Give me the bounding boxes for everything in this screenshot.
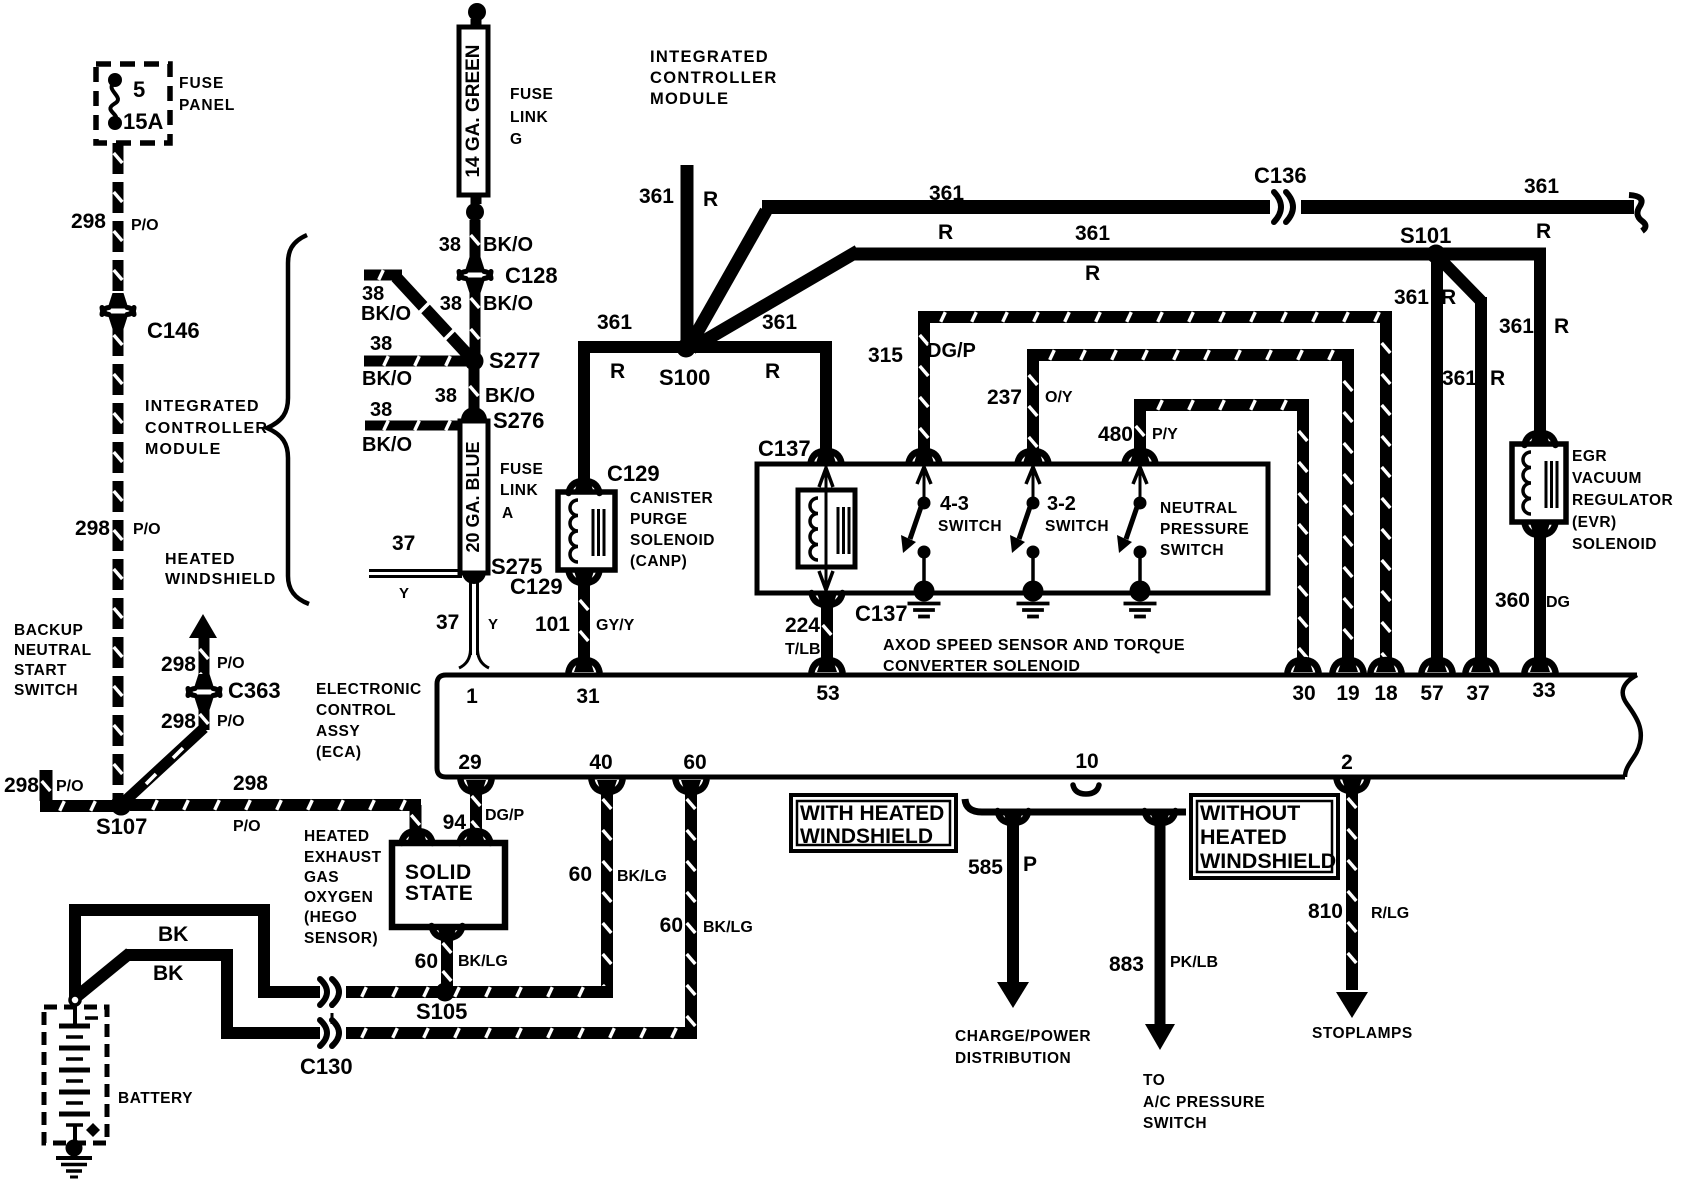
connector bell 585 branch <box>998 811 1029 823</box>
connector C136 <box>1274 192 1281 222</box>
svg-text:R/LG: R/LG <box>1371 905 1409 922</box>
svg-text:WINDSHIELD: WINDSHIELD <box>1200 849 1336 873</box>
node S100 <box>677 339 696 358</box>
svg-text:PANEL: PANEL <box>179 97 235 114</box>
svg-text:SOLENOID: SOLENOID <box>1572 536 1657 553</box>
electronic control assy ECA box <box>437 675 1637 777</box>
svg-text:38: 38 <box>439 234 461 256</box>
svg-text:298: 298 <box>161 653 196 676</box>
canister purge solenoid CANP box <box>558 492 615 570</box>
svg-text:(ECA): (ECA) <box>316 744 362 761</box>
svg-text:SWITCH: SWITCH <box>14 682 78 699</box>
switch 4-3 symbol <box>923 466 926 497</box>
svg-text:361: 361 <box>1524 175 1559 198</box>
svg-text:BK/O: BK/O <box>362 368 412 390</box>
svg-text:C130: C130 <box>300 1054 353 1079</box>
svg-text:BATTERY: BATTERY <box>118 1090 193 1107</box>
svg-text:C136: C136 <box>1254 163 1307 188</box>
svg-text:BK/LG: BK/LG <box>703 919 753 936</box>
svg-text:SENSOR): SENSOR) <box>304 930 378 947</box>
svg-text:P/O: P/O <box>131 217 159 234</box>
svg-text:361: 361 <box>639 185 674 208</box>
svg-text:19: 19 <box>1336 682 1359 705</box>
node S107 <box>111 795 132 816</box>
svg-text:R: R <box>938 221 953 244</box>
svg-text:BK/LG: BK/LG <box>458 953 508 970</box>
svg-text:361: 361 <box>762 311 797 334</box>
svg-text:START: START <box>14 662 67 679</box>
svg-text:53: 53 <box>816 682 839 705</box>
connector bell 4-3 entry <box>909 451 940 463</box>
svg-text:C137: C137 <box>758 436 811 461</box>
svg-text:WINDSHIELD: WINDSHIELD <box>165 571 276 588</box>
ground below battery <box>56 1156 92 1160</box>
wire 315 DG/P 4-3 switch to ECA pin 18 <box>918 311 930 459</box>
svg-text:(CANP): (CANP) <box>630 553 687 570</box>
wire 38 BK/O stub and diagonal into S277 <box>364 270 402 281</box>
svg-text:INTEGRATED: INTEGRATED <box>650 48 769 66</box>
wire 38 BK/O to C128 <box>470 220 481 265</box>
svg-text:S105: S105 <box>416 999 467 1024</box>
wire 361 R second rail <box>853 248 1546 261</box>
wire 298 P/O S107 to HEGO solid state <box>130 799 421 811</box>
connector bell ECA pin 30 <box>1288 660 1319 672</box>
connector bell ECA pin 18 <box>1371 660 1402 672</box>
switch neutral pressure symbol <box>1139 466 1142 497</box>
wire 361 R top rail <box>762 200 1270 214</box>
svg-text:37: 37 <box>1466 682 1489 705</box>
node S277 <box>465 352 484 371</box>
svg-text:SWITCH: SWITCH <box>1160 542 1224 559</box>
svg-text:298: 298 <box>71 210 106 233</box>
svg-text:224: 224 <box>785 614 820 637</box>
wire 361 R diagonal S100 to top rail <box>690 211 766 345</box>
svg-text:40: 40 <box>589 751 612 774</box>
svg-text:CONVERTER SOLENOID: CONVERTER SOLENOID <box>883 658 1080 675</box>
svg-text:1: 1 <box>466 685 478 708</box>
svg-text:C137: C137 <box>855 601 908 626</box>
svg-text:5: 5 <box>133 77 145 102</box>
svg-text:STOPLAMPS: STOPLAMPS <box>1312 1025 1413 1042</box>
svg-text:TO: TO <box>1143 1072 1165 1089</box>
connector bell 883 branch <box>1145 811 1176 823</box>
svg-text:PK/LB: PK/LB <box>1170 954 1218 971</box>
svg-text:NEUTRAL: NEUTRAL <box>1160 500 1238 517</box>
svg-text:31: 31 <box>576 685 600 708</box>
svg-text:S107: S107 <box>96 814 147 839</box>
svg-text:SOLID: SOLID <box>405 861 472 884</box>
svg-text:MODULE: MODULE <box>650 90 729 108</box>
svg-text:361: 361 <box>1499 315 1534 338</box>
wire stub into fuse link G box <box>471 19 482 29</box>
svg-text:298: 298 <box>75 517 110 540</box>
svg-text:883: 883 <box>1109 953 1144 976</box>
svg-text:CONTROLLER: CONTROLLER <box>145 420 268 437</box>
svg-text:R: R <box>703 188 718 211</box>
svg-text:T/LB: T/LB <box>785 641 821 658</box>
svg-text:LINK: LINK <box>500 482 538 499</box>
wire BK lower battery to C130 <box>75 953 130 998</box>
wire 60 BK/LG pin 40 to S105 rail <box>601 783 613 998</box>
node S105 <box>436 983 455 1002</box>
ground at 4-3 switch <box>914 581 935 602</box>
svg-text:3-2: 3-2 <box>1047 493 1076 515</box>
svg-text:BK/O: BK/O <box>361 303 411 325</box>
svg-text:SWITCH: SWITCH <box>938 518 1002 535</box>
wire 101 GY/Y to ECA pin 31 <box>578 583 590 668</box>
svg-text:GAS: GAS <box>304 869 339 886</box>
svg-text:ASSY: ASSY <box>316 723 360 740</box>
svg-text:AXOD SPEED SENSOR AND TORQUE: AXOD SPEED SENSOR AND TORQUE <box>883 637 1185 654</box>
EGR vacuum regulator EVR solenoid box <box>1512 444 1566 522</box>
svg-text:HEATED: HEATED <box>304 828 370 845</box>
svg-text:BK: BK <box>158 923 188 946</box>
svg-text:38: 38 <box>370 399 392 421</box>
svg-text:BK/O: BK/O <box>362 434 412 456</box>
connector bell ECA pin 29 <box>461 780 492 792</box>
arrow to charge/power distribution <box>997 982 1029 1008</box>
svg-text:480: 480 <box>1098 423 1133 446</box>
node below fuse link G <box>466 203 484 221</box>
wire 361 R vertical above S100 <box>681 165 694 344</box>
svg-text:C129: C129 <box>510 574 563 599</box>
svg-text:LINK: LINK <box>510 109 548 126</box>
svg-text:37: 37 <box>392 532 415 555</box>
without heated windshield box <box>1191 795 1338 878</box>
svg-text:R: R <box>1554 315 1569 338</box>
node S101 <box>1427 245 1446 264</box>
wire jumper bar below pin 10 <box>965 799 1186 812</box>
svg-text:EXHAUST: EXHAUST <box>304 849 382 866</box>
svg-text:S277: S277 <box>489 348 540 373</box>
arrow to A/C pressure switch <box>1145 1024 1175 1050</box>
svg-text:C128: C128 <box>505 263 558 288</box>
svg-text:298: 298 <box>4 774 39 797</box>
connector bell NPS entry <box>1125 451 1156 463</box>
svg-text:C363: C363 <box>228 678 281 703</box>
svg-text:R: R <box>1441 286 1456 309</box>
wire 883 PK/LB to A/C pressure switch <box>1155 815 1166 1024</box>
svg-text:361: 361 <box>929 182 964 205</box>
svg-text:15A: 15A <box>123 109 163 134</box>
fuse link A box 20 GA. BLUE <box>460 421 488 573</box>
svg-text:R: R <box>610 360 625 383</box>
svg-text:94: 94 <box>443 811 467 834</box>
connector bell ECA pin 31 <box>569 660 600 672</box>
connector bell ECA pin 19 <box>1333 660 1364 672</box>
svg-text:BACKUP: BACKUP <box>14 622 83 639</box>
svg-text:PRESSURE: PRESSURE <box>1160 521 1249 538</box>
battery plus diamond <box>86 1123 100 1137</box>
wire 361 R S101 to ECA pin 57 <box>1431 260 1443 668</box>
svg-text:OXYGEN: OXYGEN <box>304 889 373 906</box>
wire 298 P/O to heated windshield (arrow up) <box>189 614 217 638</box>
svg-text:361: 361 <box>1075 222 1110 245</box>
connector bell ECA pin 60 <box>676 780 707 792</box>
ground at neutral pressure switch <box>1130 581 1151 602</box>
svg-text:SWITCH: SWITCH <box>1143 1115 1207 1132</box>
node S276 (dome) <box>461 407 487 421</box>
svg-text:BK/O: BK/O <box>485 385 535 407</box>
svg-text:FUSE: FUSE <box>179 75 224 92</box>
svg-text:REGULATOR: REGULATOR <box>1572 492 1673 509</box>
svg-text:(HEGO: (HEGO <box>304 909 357 926</box>
wire 298 P/O C363 to S107 <box>199 708 210 730</box>
svg-text:WITH HEATED: WITH HEATED <box>800 802 944 825</box>
svg-text:585: 585 <box>968 856 1003 879</box>
battery positive post <box>70 995 80 1005</box>
wire stub below box <box>471 195 482 204</box>
wire 298 P/O fuse panel to C146 (dashed) <box>113 143 124 297</box>
svg-text:298: 298 <box>161 710 196 733</box>
connector bell ECA pin 2 <box>1337 779 1368 791</box>
svg-text:STATE: STATE <box>405 882 473 905</box>
svg-text:60: 60 <box>569 863 592 886</box>
svg-text:101: 101 <box>535 613 570 636</box>
battery dashed box <box>44 1007 107 1143</box>
wire 60 BK/LG HEGO to S105 <box>441 930 453 986</box>
wire 360 DG EVR to ECA pin 33 <box>1534 535 1546 668</box>
connector C130 upper <box>320 979 327 1005</box>
wire 38 BK/O C128 to S277 <box>470 285 481 356</box>
wire 810 R/LG to stoplamps <box>1346 782 1358 990</box>
svg-text:20 GA. BLUE: 20 GA. BLUE <box>463 441 483 552</box>
fuse F5 15A symbol <box>108 73 122 87</box>
node terminal above fuse link G <box>468 3 486 21</box>
svg-text:P/O: P/O <box>217 713 245 730</box>
wire 298 P/O C146 to S107 (dashed) <box>113 325 124 799</box>
svg-text:361: 361 <box>597 311 632 334</box>
connector bell ECA pin 53 <box>812 660 843 672</box>
wire 38 BK/O horizontal into S277 <box>364 356 466 367</box>
svg-text:BK/O: BK/O <box>483 234 533 256</box>
svg-text:S101: S101 <box>1400 223 1451 248</box>
svg-text:18: 18 <box>1374 682 1398 705</box>
svg-text:SOLENOID: SOLENOID <box>630 532 715 549</box>
svg-text:SWITCH: SWITCH <box>1045 518 1109 535</box>
wire 585 P to charge/power distribution <box>1007 815 1019 987</box>
arrow to stoplamps <box>1336 992 1368 1018</box>
connector bell C129 top <box>569 481 600 493</box>
wire 224 T/LB to ECA pin 53 <box>821 605 833 668</box>
connector C130 lower <box>320 1020 327 1046</box>
svg-text:R: R <box>1490 367 1505 390</box>
svg-text:29: 29 <box>458 751 481 774</box>
wire 361 R S100 left to C129 <box>578 341 688 353</box>
svg-text:DG: DG <box>1546 594 1570 611</box>
wire 38 BK/O S277 to S276 <box>469 368 480 414</box>
wire 38 BK/O horizontal into S276 box <box>365 421 458 431</box>
node S275 (dome) <box>462 571 486 584</box>
svg-text:O/Y: O/Y <box>1045 389 1073 406</box>
ground at 3-2 switch <box>1023 581 1044 602</box>
svg-text:A: A <box>502 505 513 522</box>
battery ground terminal <box>66 1140 83 1157</box>
svg-text:38: 38 <box>370 333 392 355</box>
connector C363 <box>194 674 215 690</box>
svg-text:A/C PRESSURE: A/C PRESSURE <box>1143 1094 1265 1111</box>
svg-text:CHARGE/POWER: CHARGE/POWER <box>955 1028 1091 1045</box>
svg-text:38: 38 <box>435 385 457 407</box>
svg-text:CONTROLLER: CONTROLLER <box>650 69 778 87</box>
svg-text:WINDSHIELD: WINDSHIELD <box>800 825 933 848</box>
wire 298 P/O left stub <box>40 770 53 801</box>
connector bell EVR top <box>1525 433 1556 445</box>
svg-text:DISTRIBUTION: DISTRIBUTION <box>955 1050 1071 1067</box>
torque converter solenoid symbol in C137 <box>825 466 828 590</box>
connector bell HEGO entry left <box>402 831 433 843</box>
svg-text:57: 57 <box>1420 682 1443 705</box>
wire 37 Y S275 to ECA pin 1 (double line) <box>469 582 472 655</box>
svg-text:GY/Y: GY/Y <box>596 617 635 634</box>
AXOD connector box C137 <box>757 464 1268 593</box>
svg-text:C129: C129 <box>607 461 660 486</box>
svg-text:C146: C146 <box>147 318 200 343</box>
connector bell C137 solenoid entry <box>811 451 842 463</box>
svg-text:BK/O: BK/O <box>483 293 533 315</box>
connector bell ECA pin 40 <box>592 780 623 792</box>
switch 3-2 symbol <box>1032 466 1035 497</box>
svg-text:60: 60 <box>660 914 683 937</box>
wire 94 DG/P pin 29 to HEGO <box>470 783 482 831</box>
connector bell ECA pin 37 <box>1466 660 1497 672</box>
svg-text:60: 60 <box>415 950 438 973</box>
connector bell ECA pin 10 <box>1073 785 1099 794</box>
svg-text:R: R <box>1536 220 1551 243</box>
connector bell C129 bottom <box>569 571 600 583</box>
svg-text:14 GA. GREEN: 14 GA. GREEN <box>463 44 484 177</box>
connector C130 dashed tie <box>331 1003 334 1024</box>
svg-text:MODULE: MODULE <box>145 441 222 458</box>
wire 361 R S101 corner to EVR <box>1534 248 1546 441</box>
svg-text:298: 298 <box>233 772 268 795</box>
wire 480 P/Y neutral pressure switch to ECA pin 30 <box>1134 399 1146 459</box>
svg-text:VACUUM: VACUUM <box>1572 470 1642 487</box>
connector bell HEGO entry right <box>460 831 491 843</box>
svg-text:PURGE: PURGE <box>630 511 688 528</box>
svg-text:INTEGRATED: INTEGRATED <box>145 398 260 415</box>
connector bell 3-2 entry <box>1018 451 1049 463</box>
svg-text:P/O: P/O <box>217 655 245 672</box>
svg-text:P/Y: P/Y <box>1152 426 1178 443</box>
svg-text:ELECTRONIC: ELECTRONIC <box>316 681 422 698</box>
svg-text:BK/LG: BK/LG <box>617 868 667 885</box>
connector bell C137 bottom exit <box>812 593 843 605</box>
connector C128 <box>465 257 486 273</box>
svg-text:CANISTER: CANISTER <box>630 490 713 507</box>
svg-text:810: 810 <box>1308 900 1343 923</box>
wire BK upper battery to C130 <box>69 916 81 998</box>
svg-text:37: 37 <box>436 611 459 634</box>
connector bell HEGO bottom <box>432 926 463 938</box>
svg-text:360: 360 <box>1495 589 1530 612</box>
wire 361 R S100 right to C137 <box>684 341 832 353</box>
svg-text:(EVR): (EVR) <box>1572 514 1617 531</box>
fuse panel (dashed box) <box>96 64 170 143</box>
svg-text:HEATED: HEATED <box>1200 825 1287 849</box>
svg-text:CONTROL: CONTROL <box>316 702 396 719</box>
svg-text:BK: BK <box>153 962 183 985</box>
svg-text:G: G <box>510 131 522 148</box>
svg-text:HEATED: HEATED <box>165 551 236 568</box>
svg-text:38: 38 <box>362 283 384 305</box>
svg-text:60: 60 <box>683 751 706 774</box>
svg-text:361: 361 <box>1394 286 1429 309</box>
HEGO solid state box <box>392 843 505 927</box>
svg-text:FUSE: FUSE <box>500 461 543 478</box>
wire 60 BK/LG pin 60 to C130 rail <box>685 783 697 1039</box>
svg-text:P/O: P/O <box>233 818 261 835</box>
svg-text:33: 33 <box>1532 679 1555 702</box>
svg-text:NEUTRAL: NEUTRAL <box>14 642 92 659</box>
svg-text:Y: Y <box>399 585 409 602</box>
svg-text:4-3: 4-3 <box>940 493 969 515</box>
svg-text:S276: S276 <box>493 408 544 433</box>
svg-text:237: 237 <box>987 386 1022 409</box>
connector bell ECA pin 57 <box>1422 660 1453 672</box>
svg-text:S100: S100 <box>659 365 710 390</box>
svg-text:P: P <box>1023 853 1037 876</box>
svg-text:R: R <box>1085 262 1100 285</box>
connector bell EVR bottom <box>1525 523 1556 535</box>
fuse link G box 14 GA. GREEN <box>459 27 488 195</box>
wire 237 O/Y 3-2 switch to ECA pin 19 <box>1027 349 1039 459</box>
svg-text:FUSE: FUSE <box>510 86 553 103</box>
svg-text:2: 2 <box>1341 751 1353 774</box>
wire 361 R S101 to ECA pin 37 <box>1441 260 1481 301</box>
svg-text:361: 361 <box>1442 367 1477 390</box>
svg-text:Y: Y <box>488 616 498 633</box>
svg-text:38: 38 <box>440 293 462 315</box>
svg-text:P/O: P/O <box>56 778 84 795</box>
battery minus sign <box>85 1016 98 1020</box>
svg-text:P/O: P/O <box>133 521 161 538</box>
svg-text:EGR: EGR <box>1572 448 1607 465</box>
with heated windshield box <box>791 795 956 851</box>
connector C146 <box>108 293 129 309</box>
svg-text:WITHOUT: WITHOUT <box>1200 801 1300 825</box>
svg-text:R: R <box>765 360 780 383</box>
svg-text:315: 315 <box>868 344 903 367</box>
wire 60 BK/LG rail C130 to pin 60 <box>346 1027 697 1039</box>
svg-text:30: 30 <box>1292 682 1315 705</box>
brace for integrated controller module <box>267 235 309 604</box>
wire 60 BK/LG rail C130 to pin 40 <box>346 986 613 998</box>
continuation squiggle top rail <box>1629 195 1646 231</box>
wire 361 R diagonal S100 to second rail <box>692 251 858 348</box>
svg-text:DG/P: DG/P <box>485 807 524 824</box>
wire 37 Y horizontal (double line) <box>369 569 462 572</box>
svg-text:DG/P: DG/P <box>927 340 976 362</box>
connector bell ECA pin 33 <box>1525 660 1556 672</box>
battery cell plates <box>59 1024 90 1029</box>
svg-text:10: 10 <box>1075 750 1098 773</box>
